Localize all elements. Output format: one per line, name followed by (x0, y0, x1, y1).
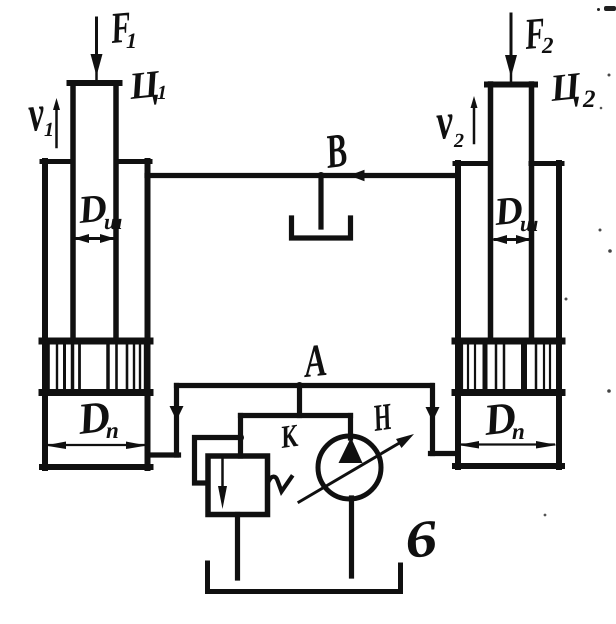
valve K pilot line loop (195, 438, 241, 484)
force F2 arrow (505, 14, 517, 81)
label Dsh left (77, 195, 122, 230)
tank B symbol (208, 563, 401, 592)
cylinder U1 piston bottom band (42, 389, 150, 396)
pump H outlet triangle (339, 438, 363, 464)
cylinder U2 bottom edge (455, 463, 562, 469)
valve K spring mark (269, 477, 292, 492)
label A (node) (301, 345, 326, 378)
valve K body (208, 456, 268, 515)
wire: line A horizontal (177, 383, 432, 388)
cylinder U2 outer body left wall (455, 163, 461, 467)
node A junction (296, 382, 303, 389)
arrow down on right branch (426, 407, 440, 422)
cylinder U1 bottom edge (42, 464, 151, 470)
label v1 (28, 106, 52, 136)
wire: valve K drain to tank B (235, 515, 240, 579)
label C1 (128, 71, 165, 107)
wire: right branch riser to cylinder U2 (431, 386, 459, 454)
cylinder U2 piston rod right wall (529, 84, 535, 341)
cylinder U2 piston rod top cap (487, 82, 535, 88)
cylinder U1 outer body left wall (42, 161, 48, 468)
cylinder U1 piston rod right wall (113, 83, 119, 341)
label Dsh right (493, 197, 538, 232)
pump H circle (318, 436, 381, 499)
cylinder U1 top edge right segment (116, 159, 150, 164)
wire: pump H feed drop (348, 416, 353, 439)
label B (top tank) (323, 134, 347, 168)
wire: pump H suction to tank B (349, 498, 354, 576)
cylinder U2 top edge right segment (531, 161, 562, 166)
wire: top line B between cylinders (147, 173, 457, 178)
cylinder U2 top edge left segment (455, 161, 490, 166)
wire: valve K feed drop (238, 416, 243, 457)
wire: drop from node B to tank V (318, 176, 323, 228)
diameter Dp arrow (left cylinder) (45, 442, 147, 450)
label F1 (109, 13, 134, 48)
junction on pilot loop (237, 434, 244, 441)
label C2 (549, 73, 595, 109)
arrow down on left branch (170, 406, 184, 421)
cylinder U1 piston top band (42, 338, 150, 345)
cylinder U2 outer body right wall (556, 163, 562, 467)
label Dp left (76, 402, 117, 438)
valve K internal flow arrow (218, 458, 227, 509)
wire: node A down to pump branch (297, 386, 302, 416)
label B (bottom tank) (406, 520, 439, 558)
arrow on line B pointing left (349, 170, 365, 181)
label F2 (523, 19, 553, 53)
force F1 arrow (91, 18, 103, 80)
cylinder U1 top edge left segment (42, 159, 73, 164)
tank V symbol (292, 218, 351, 238)
cylinder U1 piston rod left wall (70, 83, 76, 341)
cylinder U2 piston bottom band (455, 389, 562, 396)
label H (pump) (371, 404, 393, 431)
cylinder U1 piston rod top cap (70, 80, 120, 86)
cylinder U2 piston rod left wall (488, 84, 494, 341)
diameter Dsh arrow (right cylinder) (492, 235, 531, 244)
label K (valve) (279, 425, 300, 448)
cylinder U2 piston top band (455, 338, 562, 345)
page speck top right (544, 6, 616, 516)
node B junction (318, 172, 325, 179)
wire: left branch riser to cylinder U1 (148, 386, 179, 456)
pump H variable-displacement diagonal arrow (299, 434, 414, 502)
diameter Dsh arrow (left cylinder) (74, 234, 115, 243)
cylinder U1 piston hatch lines (49, 345, 146, 390)
diameter Dp arrow (right cylinder) (458, 441, 557, 449)
cylinder U2 piston hatch lines (462, 345, 550, 390)
label Dp right (482, 403, 523, 439)
wire: pump branch horizontal (241, 413, 351, 418)
velocity v2 arrow (471, 96, 478, 143)
cylinder U1 outer body right wall (145, 161, 151, 468)
velocity v1 arrow (53, 98, 60, 147)
label v2 (436, 114, 463, 147)
